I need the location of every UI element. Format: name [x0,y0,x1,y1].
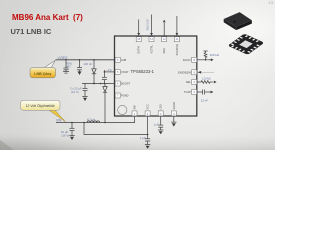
pin box FAULT (8) [192,57,197,62]
wire top pin 12 stub [163,23,165,36]
capacitor C2 100nF [77,60,82,72]
ground arrow under C5 [70,137,74,140]
ground arrow under C2 [78,71,82,75]
junction C5 on VIN [71,122,73,124]
photo QFN package bottom view [228,34,265,55]
svg-text:VOCP: VOCP [121,70,129,74]
capacitor C3 47uF [102,70,107,84]
resistor R2 110k on SEL pin [197,81,213,84]
arrowhead into pin 11 [176,33,179,36]
junction C2 on V-REG [79,59,81,61]
subtitle U71 LNB IC [11,27,52,36]
svg-text:VCTRL: VCTRL [149,44,153,53]
resistor R1 100k pull-up [204,51,207,60]
ground arrow under C6 [146,146,150,149]
ground under AGND pin 4 [171,116,176,122]
junction C6 on VCC branch [147,134,149,136]
capacitor C8 22nF on TCAP pin [197,90,211,95]
pin box SW (1) [132,111,137,116]
pin box EXTM (15) [136,37,141,42]
page number [269,0,273,5]
inductor L1 4.7uH [87,121,100,123]
svg-text:(16 V): (16 V) [71,90,79,94]
svg-text:(16 V): (16 V) [62,133,70,137]
pin box SCL (11) [174,37,179,42]
junction D2 on VIN [104,122,106,124]
svg-text:FAULT: FAULT [183,58,191,62]
svg-text:110 kΩ: 110 kΩ [202,77,211,81]
svg-text:4R7: 4R7 [66,65,71,68]
arrowhead TCAP net right [211,91,214,94]
junction R1 on FAULT net [205,59,207,61]
svg-text:EN/DSQIN: EN/DSQIN [178,70,191,74]
svg-text:1 µF: 1 µF [140,136,146,140]
svg-text:SW: SW [133,105,137,110]
arrowhead up on pin 12 stub [163,20,166,23]
slide title [12,13,83,22]
arrowhead into pin 13 [150,33,153,36]
wire top pin 11 stub [176,16,178,33]
svg-text:SEL: SEL [186,80,191,84]
capacitor C6 1uF [145,134,150,144]
ground arrow under C7 [159,131,163,134]
ferrite bead FB1 with capacitor [64,60,69,72]
wire net V-REG (LNB output rail) [56,59,115,61]
ground arrow under C4 [83,98,87,101]
svg-text:TPS65233-1: TPS65233-1 [131,69,155,74]
pin box LNB (6) [115,57,120,62]
wire FAULT net [197,59,212,61]
wire top pin 15 stub [138,20,140,34]
svg-text:SCL/DSQ: SCL/DSQ [175,44,179,55]
pin box AGND (4) [171,111,176,116]
svg-text:BOOST: BOOST [121,82,130,86]
svg-text:LNB Çıkış: LNB Çıkış [34,72,51,76]
junction VOCP stub on C3 [104,71,106,73]
pin numbers top side [137,38,178,41]
arrowhead into EN/DSQIN pin [198,71,202,74]
svg-text:4.7 µH: 4.7 µH [87,118,95,122]
wire VCC branch to pin 2 [84,116,148,134]
svg-text:47µ: 47µ [108,69,113,72]
svg-text:100 nF: 100 nF [84,62,93,66]
pin box SEL (3) [192,80,197,85]
pin numbers left side [117,59,119,98]
pin box TCAP (6) [192,90,197,95]
pin box SDA (12) [162,37,167,42]
svg-text:100 kΩ: 100 kΩ [210,53,220,57]
svg-text:1 µF: 1 µF [154,123,160,127]
svg-text:SDA: SDA [162,48,166,54]
arrowhead into pin 15 [137,33,140,36]
svg-text:TCAP: TCAP [184,90,191,94]
capacitor C5 10uF [69,123,74,136]
pin box PGND (7) [115,93,120,98]
ground (bar style) under FB1 [63,72,69,74]
IC U71 TPS65233-1 body [115,36,197,116]
callout LNB Cikis [30,60,56,78]
photo QFN package top view [224,12,252,30]
pin box VOCP (5) [115,69,120,74]
wire net VIN to pin 1 [56,116,135,123]
wire top pin 13 stub [151,15,153,34]
wire pin VOCP stub [104,71,115,73]
diode D2 (rectifier to VIN) [103,84,107,123]
pin numbers bottom side [134,113,175,116]
wire boost node rail [82,83,115,85]
svg-text:22 nF: 22 nF [201,99,208,103]
svg-text:VCC: VCC [146,104,150,110]
junction D2 on boost rail [104,83,106,85]
diode D1 (zener to boost node) [92,60,96,84]
svg-text:SDA 3.3V: SDA 3.3V [145,19,149,31]
power rail bar above R1 [203,50,207,52]
junction D1 on boost rail [93,83,95,85]
svg-text:PGND: PGND [121,94,129,98]
arrowhead FAULT net right [211,58,214,61]
pin box VCTRL (13) [149,37,154,42]
svg-text:AGND: AGND [172,102,176,110]
pin box VCC (2) [145,111,150,116]
pin box EN/DSQIN (9) [192,70,197,75]
junction FB1 on V-REG [65,59,67,61]
capacitor C7 1uF under pin 3 [158,116,163,130]
wire EN net (faint) [201,71,214,73]
pin box BOOST (4) [115,81,120,86]
capacitor C4 2x22uF [82,84,87,97]
callout 12 Volt Olculmelidir [21,100,66,122]
svg-text:12 Volt Ölçülmelidir: 12 Volt Ölçülmelidir [26,104,56,108]
svg-text:LNB: LNB [121,58,126,62]
pin box LDO (3) [158,111,163,116]
junction D1 on V-REG [93,59,95,61]
arrowhead SEL net right [214,81,217,84]
thermal pad circle [118,105,127,114]
svg-text:LDO: LDO [159,104,163,109]
junction C3 on boost rail [100,83,102,85]
pin numbers right side [194,59,196,94]
svg-text:EXTM: EXTM [137,46,141,53]
junction VCC branch on VIN [83,122,85,124]
